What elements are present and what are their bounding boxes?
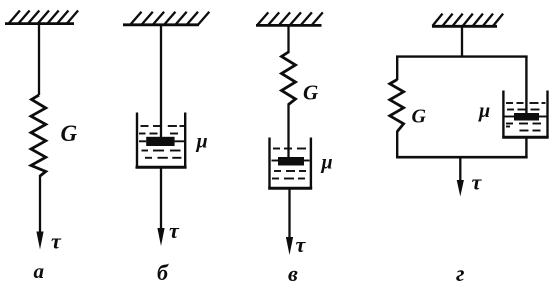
- force arrow tau (g): [457, 157, 464, 197]
- svg-text:μ: μ: [196, 131, 208, 153]
- rod from support to frame (g): [461, 27, 463, 57]
- dashpot cup (v): [268, 138, 312, 189]
- dashpot cup (b): [136, 113, 187, 168]
- spring G (g): [390, 80, 404, 132]
- svg-text:τ: τ: [51, 229, 62, 254]
- dashpot liquid dashes (g): [505, 103, 547, 131]
- spring G (a): [31, 95, 46, 176]
- svg-text:μ: μ: [321, 152, 333, 174]
- top bar of frame (g): [396, 55, 527, 57]
- svg-text:G: G: [303, 81, 318, 105]
- svg-text:μ: μ: [478, 100, 490, 122]
- dashpot liquid dashes (b): [139, 126, 184, 158]
- dashpot liquid dashes (v): [272, 149, 310, 179]
- left branch upper rod (g): [396, 56, 398, 81]
- rod from cup to bottom bar (g): [525, 137, 527, 158]
- left branch lower rod (g): [396, 131, 398, 158]
- svg-text:в: в: [288, 261, 298, 286]
- svg-text:τ: τ: [472, 170, 483, 195]
- spring G (v): [282, 52, 296, 105]
- dashpot piston (g): [514, 113, 539, 121]
- fixed support (ceiling) v: [256, 12, 323, 25]
- svg-text:G: G: [412, 106, 427, 128]
- force arrow tau (a): [36, 232, 43, 250]
- svg-text:τ: τ: [169, 218, 180, 243]
- svg-text:τ: τ: [296, 232, 307, 257]
- bottom bar of frame (g): [396, 156, 528, 159]
- svg-text:б: б: [157, 260, 169, 285]
- rod from support to spring (a): [38, 24, 40, 95]
- force arrow tau (b): [157, 228, 164, 246]
- right branch piston rod (g): [525, 56, 527, 116]
- dashpot cup (g): [502, 91, 549, 138]
- svg-text:г: г: [456, 261, 465, 286]
- dashpot piston (b): [146, 137, 174, 146]
- piston rod (b): [160, 25, 162, 140]
- piston rod (v): [287, 104, 289, 161]
- fixed support (ceiling) g: [432, 14, 503, 27]
- force arrow tau (v): [286, 237, 293, 255]
- rod from support to spring (v): [287, 26, 289, 53]
- rod from cup to force arrow (b): [160, 167, 162, 231]
- fixed support (ceiling) a: [5, 11, 78, 24]
- rod from spring to force arrow (a): [39, 175, 41, 235]
- dashpot piston (v): [278, 157, 304, 166]
- svg-text:G: G: [61, 121, 78, 146]
- fixed support (ceiling) b: [123, 12, 209, 25]
- rod from cup to force arrow (v): [288, 188, 290, 240]
- svg-text:а: а: [34, 259, 45, 283]
